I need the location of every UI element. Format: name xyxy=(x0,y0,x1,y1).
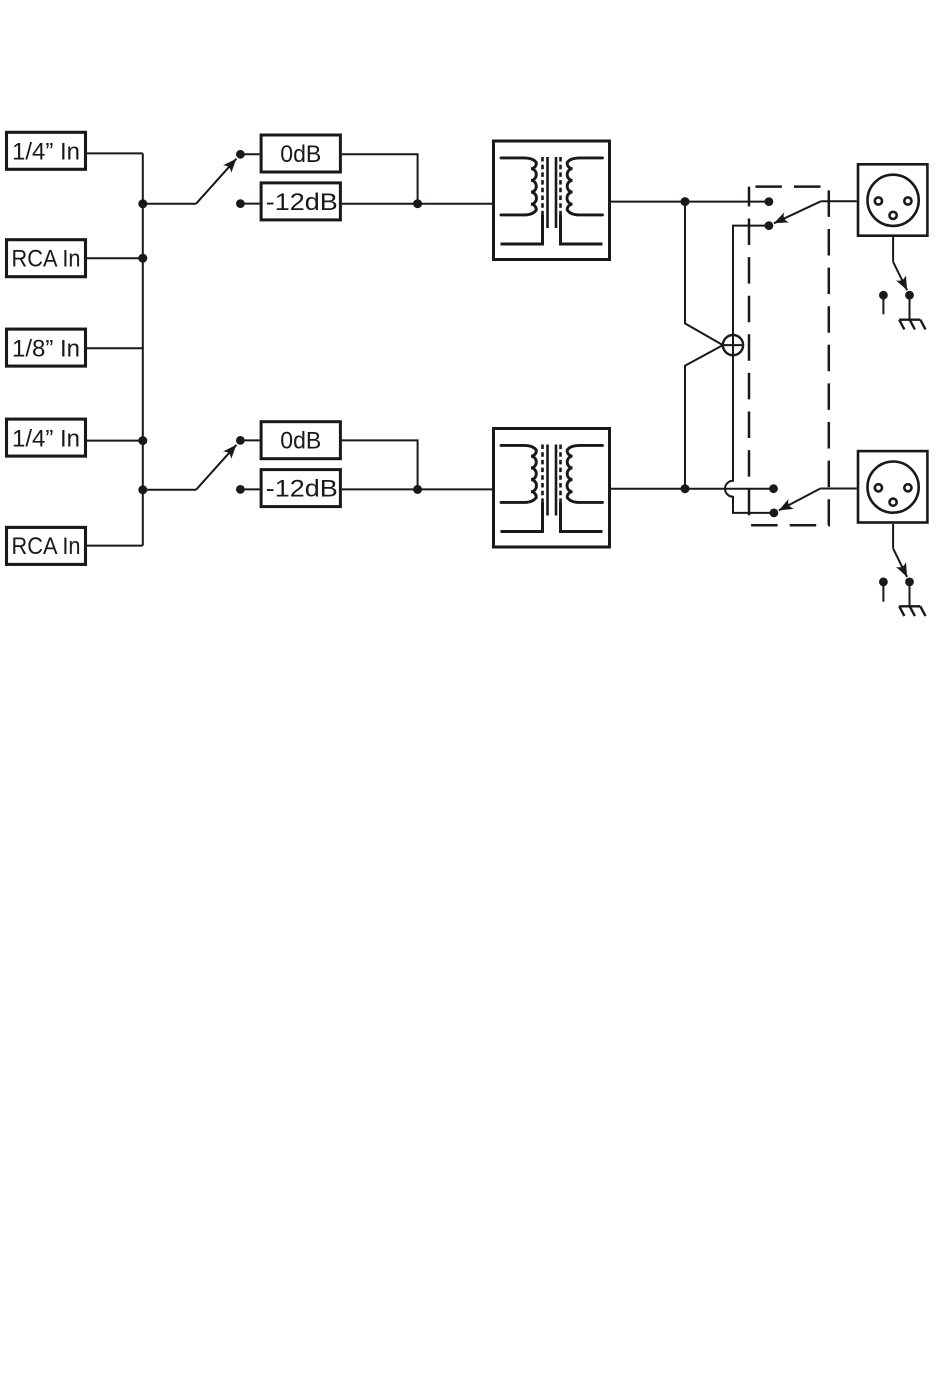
pad box 0dB (top) xyxy=(261,135,340,172)
ground chassis symbol (top) xyxy=(899,320,925,330)
wire XLR2 shell down xyxy=(892,524,894,549)
switch SW4 blade (bottom output select) xyxy=(779,489,821,511)
wire summer top output to SW3 throw B xyxy=(733,226,769,335)
wire J5 to trunk xyxy=(87,545,143,547)
node T2 output junction xyxy=(681,484,690,493)
node pad merge junction (bottom) xyxy=(413,485,422,494)
jack J4 1/4" In box xyxy=(7,419,86,456)
pin 1 xyxy=(890,212,897,219)
node SW1 throw -12dB xyxy=(236,199,245,208)
wire SW2 throw to 0dB pad xyxy=(240,439,259,441)
connector XLR1 xyxy=(858,164,927,235)
core line left xyxy=(546,157,549,228)
node switch SW3 throw B (top summed) xyxy=(765,221,774,230)
wire lift stub (bottom) xyxy=(882,582,884,602)
wire J4 to trunk xyxy=(87,440,143,442)
wire stub to -12dB pad (bottom) xyxy=(240,488,259,490)
wire 0dB output merge (top) xyxy=(342,154,418,203)
wire J3 to trunk xyxy=(87,347,143,349)
wire T1 output xyxy=(611,201,769,203)
summing node sigma xyxy=(723,335,743,355)
node switch SW4 throw B (bottom summed) xyxy=(770,509,779,518)
wire J2 to trunk xyxy=(87,257,143,259)
node top branch junction xyxy=(138,199,147,208)
wire to chassis ground (top) xyxy=(909,295,911,320)
jack J2 RCA In box xyxy=(7,240,86,277)
wire bottom branch to pad switch SW2 xyxy=(143,489,196,491)
node lift terminal (top) xyxy=(879,291,888,300)
wire J1 to trunk xyxy=(87,152,143,154)
svg-text:-12dB: -12dB xyxy=(266,476,338,503)
shield right (dashed) xyxy=(559,157,562,215)
node switch SW3 throw A (top direct) xyxy=(765,197,774,206)
node pad merge junction (top) xyxy=(413,199,422,208)
wire T2 output xyxy=(611,488,774,490)
wire input trunk bus xyxy=(142,153,144,545)
pin 3 xyxy=(904,197,911,204)
ground chassis symbol (bottom) xyxy=(899,606,925,616)
node ground terminal (bottom) xyxy=(905,578,914,587)
pad box -12dB (bottom) xyxy=(261,470,340,507)
wire summer to bottom junction xyxy=(685,345,723,489)
shield left lead xyxy=(501,215,543,244)
wire top branch to pad switch SW1 xyxy=(143,203,196,205)
pad box 0dB (bottom) xyxy=(261,422,340,459)
svg-text:1/4” In: 1/4” In xyxy=(12,138,80,165)
wire junction down to summer xyxy=(685,202,723,346)
wire summer bottom output with hop to SW4 throw B xyxy=(725,355,774,513)
jack J3 1/8" In box xyxy=(7,329,86,366)
secondary winding xyxy=(567,158,602,215)
switch SW2 blade (pad select bottom) xyxy=(196,445,236,490)
shield left (dashed) xyxy=(541,157,544,215)
wire SW3 pole to XLR1 xyxy=(821,200,857,202)
svg-text:1/8” In: 1/8” In xyxy=(12,336,80,363)
wire -12dB output to transformer T1 xyxy=(342,203,492,205)
wire lift stub (top) xyxy=(882,295,884,314)
dashed option box xyxy=(749,187,829,526)
switch SW5 blade (top ground lift) xyxy=(893,262,907,291)
pin 2 xyxy=(875,197,882,204)
primary winding xyxy=(501,158,536,215)
svg-text:-12dB: -12dB xyxy=(266,189,338,216)
wire to chassis ground (bottom) xyxy=(909,582,911,606)
wire SW4 pole to XLR2 xyxy=(820,488,856,490)
svg-text:RCA In: RCA In xyxy=(12,246,81,273)
transformer T2 xyxy=(494,429,610,548)
switch SW6 blade (bottom ground lift) xyxy=(893,548,907,577)
node SW1 throw 0dB xyxy=(236,150,245,159)
wire 0dB output merge (bottom) xyxy=(342,440,418,489)
node ground terminal (top) xyxy=(905,291,914,300)
wire XLR1 shell down xyxy=(892,237,894,262)
svg-text:RCA In: RCA In xyxy=(12,533,81,560)
wire -12dB output to transformer T2 xyxy=(342,488,492,490)
node SW2 throw 0dB xyxy=(236,436,245,445)
pad box -12dB (top) xyxy=(261,183,340,220)
switch SW3 blade (top output select) xyxy=(774,201,821,223)
jack J5 RCA In box xyxy=(7,527,86,564)
switch SW1 blade (pad select top) xyxy=(196,159,236,204)
connector XLR2 xyxy=(858,451,927,522)
node SW2 throw -12dB xyxy=(236,485,245,494)
node J2 junction xyxy=(138,254,147,263)
core line right xyxy=(555,157,558,228)
wire SW1 throw to 0dB pad xyxy=(240,153,259,155)
svg-text:0dB: 0dB xyxy=(280,428,321,455)
svg-text:0dB: 0dB xyxy=(280,141,321,168)
svg-text:1/4” In: 1/4” In xyxy=(12,426,80,453)
node T1 output junction xyxy=(681,197,690,206)
node J4 junction xyxy=(138,436,147,445)
node switch SW4 throw A (bottom direct) xyxy=(769,484,778,493)
node lift terminal (bottom) xyxy=(879,578,888,587)
transformer T1 xyxy=(494,141,610,260)
jack J1 1/4" In box xyxy=(7,132,86,169)
shield right lead xyxy=(561,215,603,244)
wire stub to -12dB pad xyxy=(240,203,259,205)
node bottom branch junction xyxy=(138,485,147,494)
